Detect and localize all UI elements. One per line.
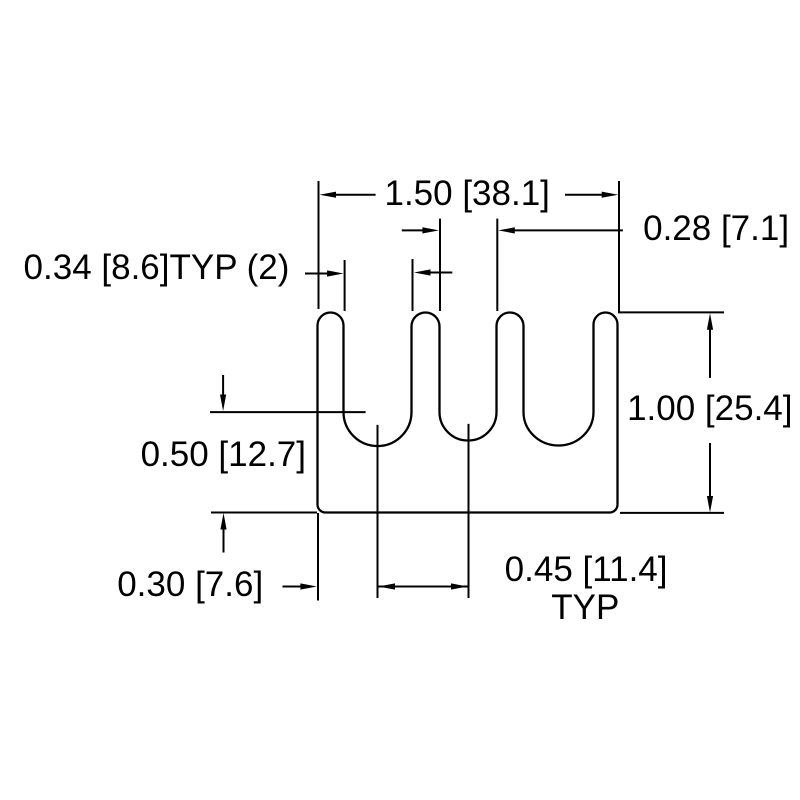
dimension line 1.50 right segment: [565, 194, 605, 196]
extension line: 0.28 right (finger 3 left edge): [496, 219, 498, 311]
svg-text:0.45 [11.4]: 0.45 [11.4]: [505, 550, 668, 589]
extension line: part bottom extended left: [211, 512, 317, 514]
extension line: 1.50 dim, left (above part left edge): [318, 181, 320, 309]
arrowhead 0.34 finger2 (points left, at finger2 left edge): [414, 269, 431, 275]
dimension line 1.50 left segment: [333, 194, 376, 196]
arrowhead 0.50 lower (points up): [220, 513, 226, 530]
extension line: 1.00 bottom (part bottom extended right): [620, 512, 724, 514]
extension line: 0.28 left (finger 2 right edge): [439, 219, 441, 311]
svg-text:TYP: TYP: [551, 588, 619, 627]
svg-text:0.28 [7.1]: 0.28 [7.1]: [643, 209, 789, 248]
arrowhead 0.30 (points right): [300, 583, 317, 589]
leader line 0.34 finger1: [305, 273, 329, 275]
arrowhead 1.00 upper (points up): [707, 313, 713, 330]
svg-text:0.50 [12.7]: 0.50 [12.7]: [141, 435, 306, 474]
arrowhead 1.50 right (points right): [602, 192, 619, 198]
dimension line 1.00 upper segment: [709, 327, 711, 378]
leader line 0.30: [283, 586, 304, 588]
dimension line 1.00 lower segment: [709, 443, 711, 498]
extension line: 1.50 right + 1.00 top (corner polyline): [619, 181, 724, 312]
arrowhead 0.45 right (points right): [451, 583, 468, 589]
arrowhead 0.28 right (points left): [498, 227, 515, 233]
dimension line 0.45 (between slot centrelines): [379, 586, 468, 588]
leader line 0.34 finger2 tail: [428, 272, 452, 274]
part outline: 4-finger comb heatsink profile: [318, 313, 618, 513]
arrowhead 1.00 lower (points down): [707, 496, 713, 513]
arrowhead 0.50 upper (points down): [220, 395, 226, 412]
arrow 0.50 upper shaft: [222, 375, 224, 398]
leader line 0.28 right tail: [512, 229, 623, 231]
svg-text:0.30 [7.6]: 0.30 [7.6]: [117, 565, 263, 604]
arrowhead 0.28 left (points right): [422, 227, 439, 233]
extension line: slot2 centreline (down through base): [468, 424, 470, 598]
extension line: slot1 centreline (down through base): [377, 425, 379, 598]
svg-text:0.34 [8.6]TYP (2): 0.34 [8.6]TYP (2): [24, 248, 290, 287]
extension line: part left edge extended down: [317, 513, 319, 601]
extension line: finger1 right edge (short): [344, 260, 346, 311]
arrowhead 0.34 finger1 (points right, at finger1 right edge): [327, 270, 344, 276]
dimension line 0.50 (slot arc-centre level): [210, 411, 366, 413]
svg-text:1.50 [38.1]: 1.50 [38.1]: [384, 174, 549, 213]
svg-text:1.00 [25.4]: 1.00 [25.4]: [627, 389, 792, 428]
leader line 0.28 left arrow shaft: [402, 229, 425, 231]
arrow 0.50 lower shaft: [223, 527, 225, 553]
arrowhead 1.50 left (points left): [320, 192, 337, 198]
extension line: finger2 left edge (short): [412, 259, 414, 311]
arrowhead 0.45 left (points left): [379, 583, 396, 589]
